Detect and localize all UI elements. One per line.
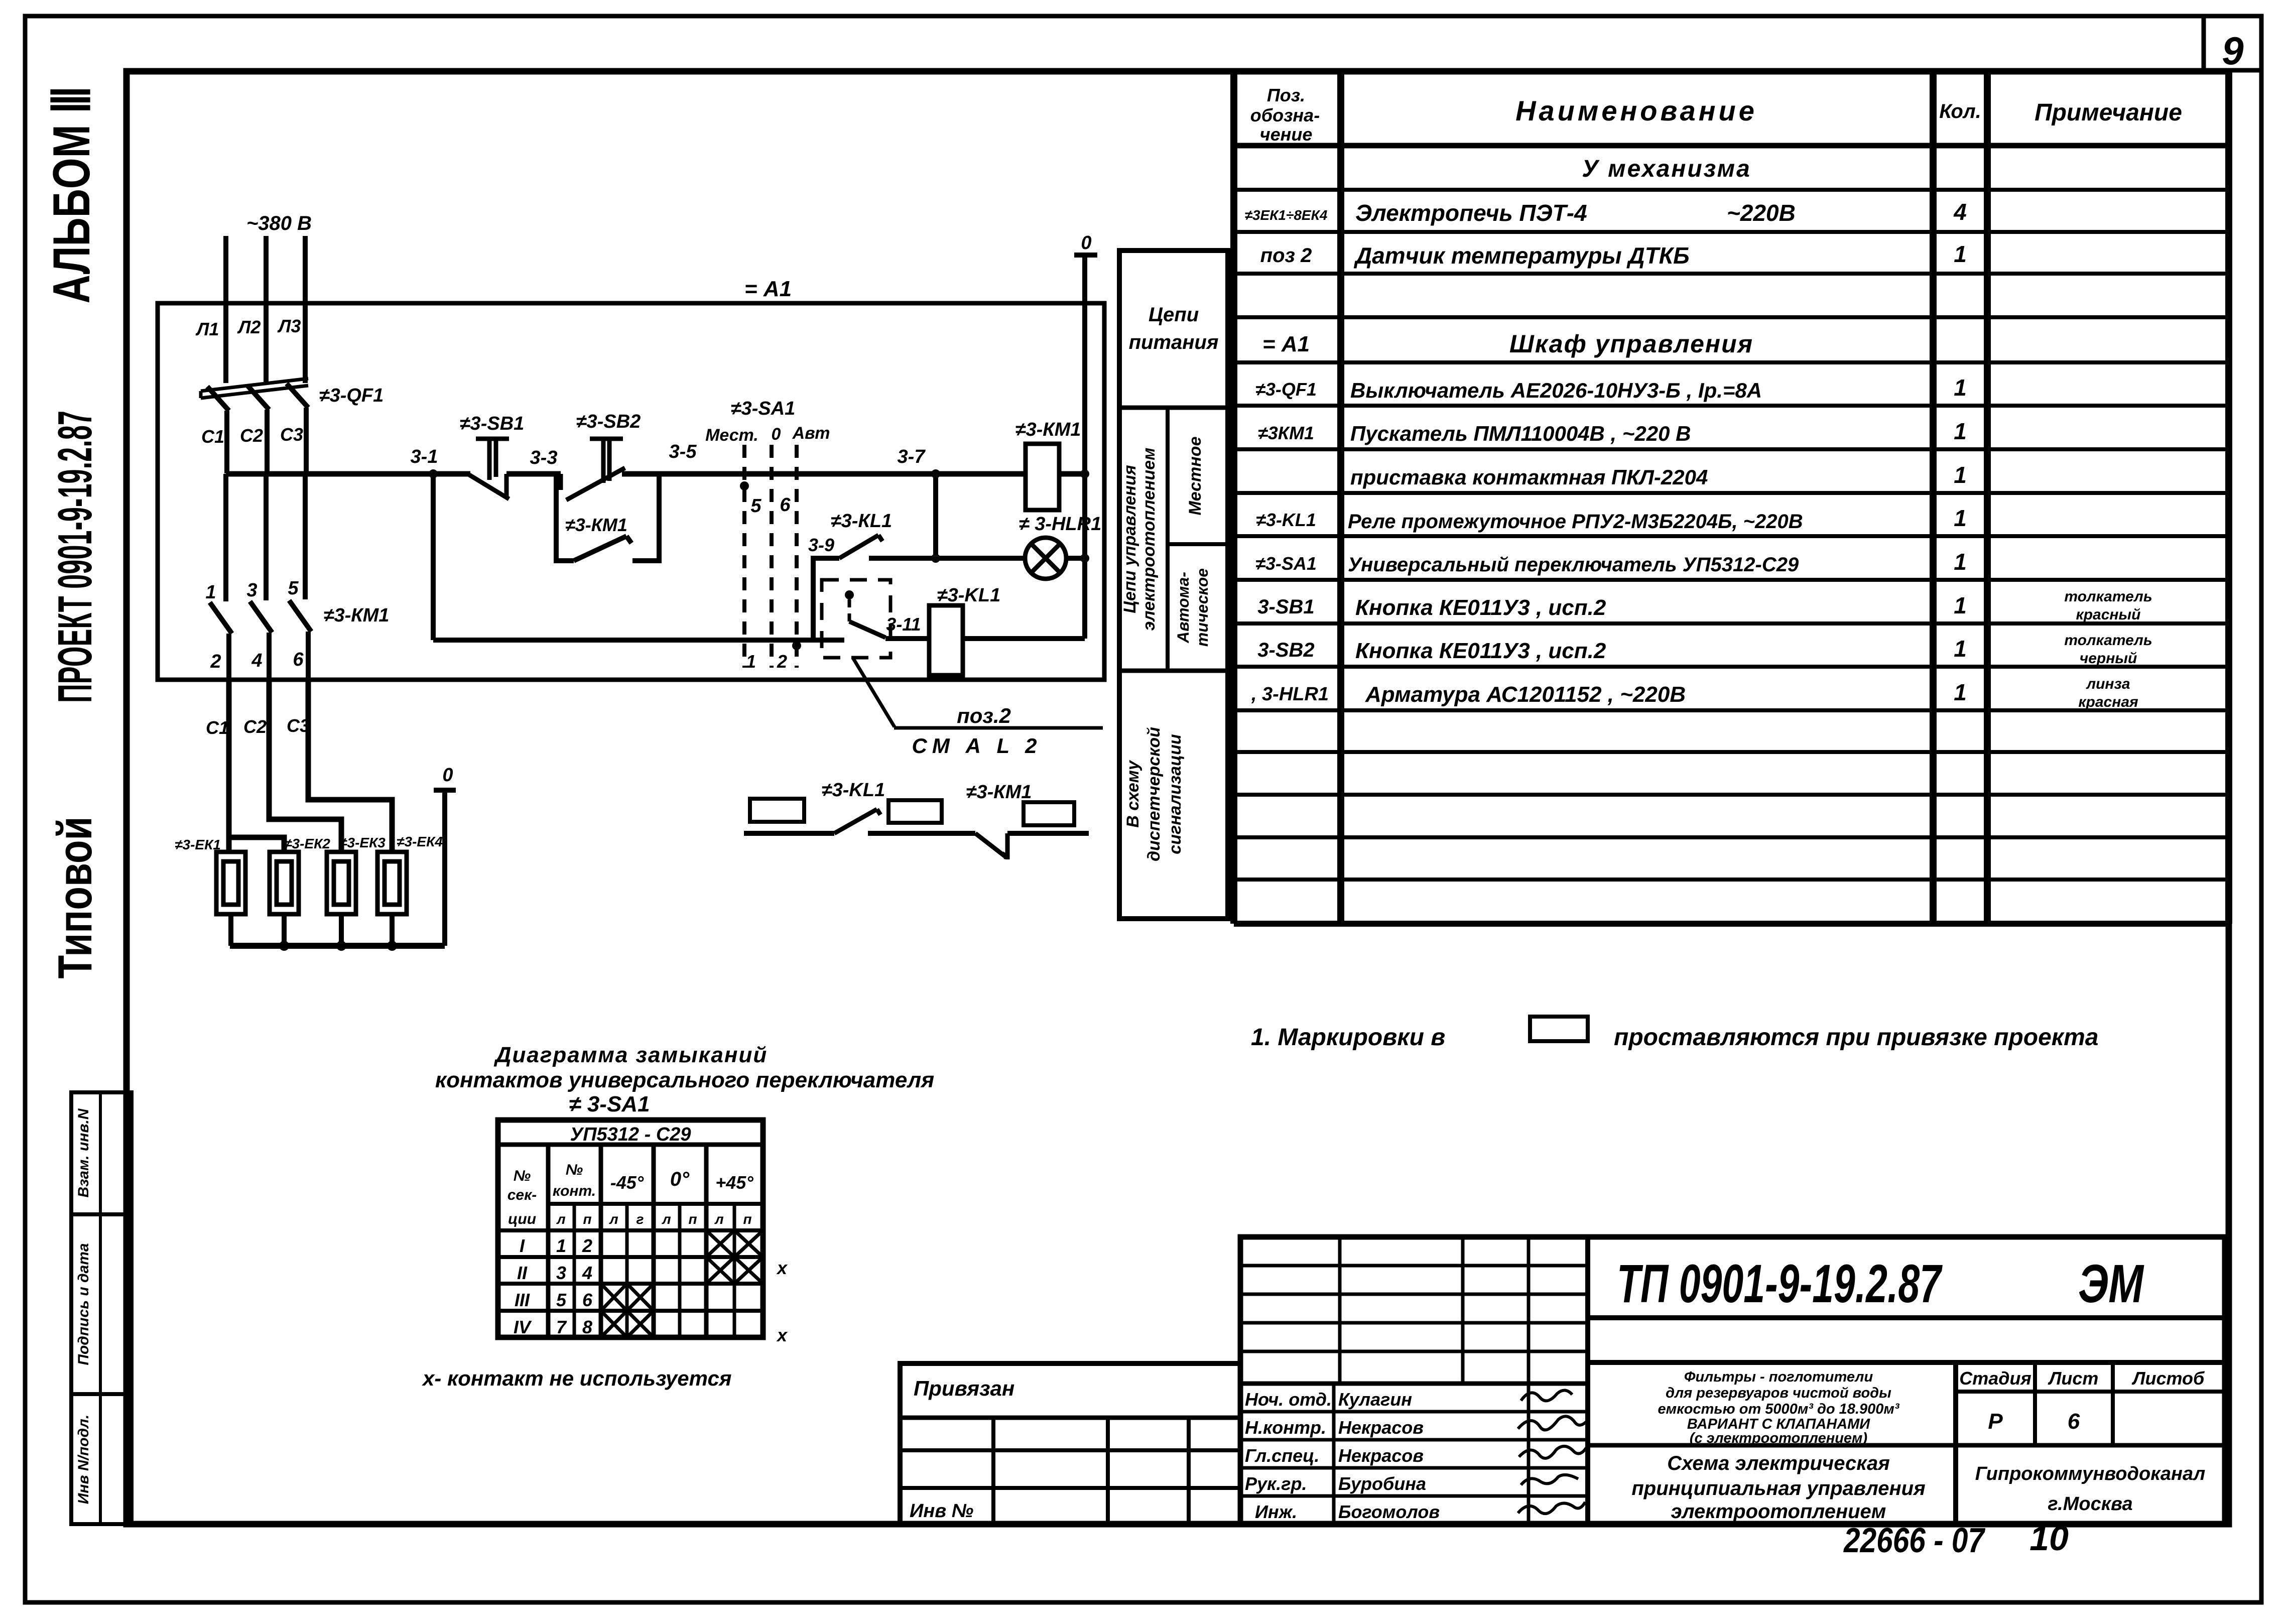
svg-text:С3: С3 [280,424,303,445]
neutral 0 wire vertical [1074,255,1097,639]
contactor KM1 auxiliary holding contact loop [556,474,659,561]
node 3-3 [530,447,558,468]
sensor contact [845,590,885,638]
node label 2 [777,651,787,672]
svg-text:Цепи управления: Цепи управления [1120,465,1139,613]
svg-text:0: 0 [1081,232,1091,254]
svg-text:С1: С1 [206,717,229,738]
svg-text:III: III [515,1290,530,1310]
svg-text:~220В: ~220В [1727,200,1796,226]
svg-text:x- контакт не используется: x- контакт не используется [422,1366,732,1390]
node label C1 lower [206,717,229,738]
SA1 contact 5-6 terminal dot [740,481,749,490]
contactor KM1 main pole 2 [250,474,272,679]
svg-text:Примечание: Примечание [2034,99,2182,126]
svg-text:-45°: -45° [610,1172,644,1193]
svg-text:1: 1 [1954,418,1967,444]
svg-text:Поз.: Поз. [1267,85,1305,105]
temperature sensor dashed box поз.2 [822,580,891,658]
svg-text:1: 1 [1954,374,1967,401]
svg-text:контактов универсального пере: контактов универсального переключателя [435,1068,934,1092]
привязан box [900,1363,1240,1524]
title block стадия лист листов [1959,1368,2205,1434]
left margin vertical texts [43,86,102,979]
svg-text:ЭМ: ЭМ [2078,1253,2144,1314]
svg-text:= А1: = А1 [744,277,792,301]
svg-text:Датчик температуры ДТКБ: Датчик температуры ДТКБ [1353,242,1690,269]
svg-text:АЛЬБОМ Ⅲ: АЛЬБОМ Ⅲ [43,86,101,304]
svg-text:≠3-SA1: ≠3-SA1 [1255,553,1317,574]
svg-text:Р: Р [1988,1409,2003,1434]
svg-text:≠3-КL1: ≠3-КL1 [831,511,892,532]
closure diagram title [435,1043,934,1116]
parts table row texts [1245,156,1967,707]
svg-text:3: 3 [556,1263,566,1283]
svg-text:принципиальная управления: принципиальная управления [1631,1477,1925,1500]
svg-text:Кнопка КЕ011У3 , исп.2: Кнопка КЕ011У3 , исп.2 [1355,639,1606,663]
svg-text:Пускатель ПМЛ110004В ,: Пускатель ПМЛ110004В , ~220 В [1350,422,1691,445]
svg-text:≠3-QF1: ≠3-QF1 [1255,379,1317,400]
svg-text:0: 0 [442,765,453,786]
title block schema name [1631,1452,1925,1523]
svg-text:Рук.гр.: Рук.гр. [1245,1473,1307,1494]
title block organization [1975,1463,2205,1515]
closure X marks row III -45 [601,1284,654,1311]
note marking sample box [1530,1017,1588,1041]
svg-text:10: 10 [2029,1519,2069,1558]
note контакт не используется [422,1366,732,1390]
contactor KM1 main pole 3 [289,474,311,679]
svg-text:п: п [583,1211,591,1227]
wire 3-7 to lamp branch [931,474,940,563]
unused contact marks [776,1258,788,1345]
svg-text:x: x [776,1325,788,1345]
node label 6 pole [293,649,304,670]
dispatch wire 2 [868,831,975,836]
relay contact KL1 3-9 branch riser [813,558,839,640]
svg-text:конт.: конт. [553,1183,596,1199]
title block staff [1245,1389,1440,1522]
svg-text:чение: чение [1260,124,1313,145]
svg-text:≠ 3-HLR1: ≠ 3-HLR1 [1019,514,1101,535]
svg-text:≠3ЕК1÷8ЕК4: ≠3ЕК1÷8ЕК4 [1245,207,1328,223]
dispatch wire 3 [1007,831,1089,836]
circuits classification box [1119,251,1228,919]
svg-text:Подпись и дата: Подпись и дата [75,1243,92,1365]
svg-text:≠3-ЕК2: ≠3-ЕК2 [284,836,330,851]
svg-text:≠3-КМ1: ≠3-КМ1 [966,782,1032,803]
svg-text:поз.2: поз.2 [957,704,1011,727]
label QF1 [319,385,384,406]
marking box 1 [750,799,804,822]
node 3-1 [411,446,438,478]
svg-text:приставка контактная ПКЛ-22: приставка контактная ПКЛ-2204 [1350,465,1708,489]
svg-text:4: 4 [251,650,262,671]
svg-text:≠3-ЕК4: ≠3-ЕК4 [397,834,443,849]
heater EK3 [327,852,356,914]
svg-text:тическое: тическое [1193,568,1211,647]
svg-text:≠3-KL1: ≠3-KL1 [822,780,885,801]
svg-text:л: л [608,1211,618,1227]
svg-text:6: 6 [582,1290,593,1310]
svg-text:≠ 3-SA1: ≠ 3-SA1 [569,1092,650,1116]
label KL1 contact [831,511,892,532]
svg-text:Инв N/подл.: Инв N/подл. [75,1415,92,1504]
label KL1 coil [937,585,1000,606]
lamp HLR1 [1025,538,1066,579]
svg-text:(с электроотоплением): (с электроотоплением) [1690,1430,1867,1446]
circuit breaker QF1 pole 2 [247,386,269,473]
svg-text:Универсальный переключатель УП: Универсальный переключатель УП5312-С29 [1348,554,1799,576]
svg-text:сек-: сек- [507,1187,537,1203]
control circuit main wire segment C [622,471,1026,477]
label KM1 main contacts [324,605,390,626]
label KM1 aux [565,515,627,535]
node label 5 pole [288,578,299,599]
svg-text:Схема электрическая: Схема электрическая [1667,1452,1890,1474]
~380V supply label [246,212,312,234]
node 3-11 [886,614,921,635]
svg-text:Электропечь ПЭТ-4: Электропечь ПЭТ-4 [1355,200,1587,226]
svg-text:Взам. инв.N: Взам. инв.N [75,1108,92,1197]
node label 6 [780,494,791,516]
svg-text:3-SB2: 3-SB2 [1257,639,1314,661]
svg-text:1: 1 [746,651,756,672]
svg-text:Типовой: Типовой [48,817,102,979]
svg-text:Л3: Л3 [277,316,301,336]
node label C3 upper [280,424,303,445]
node label 2 pole [210,651,221,672]
svg-text:3-7: 3-7 [898,446,926,467]
svg-text:Кулагин: Кулагин [1338,1389,1412,1410]
svg-text:черный: черный [2080,650,2137,667]
svg-text:электроотоплением: электроотоплением [1671,1501,1886,1523]
svg-text:≠3-КМ1: ≠3-КМ1 [565,515,627,535]
parts list table grid [1234,71,2229,924]
svg-text:Шкаф управления: Шкаф управления [1509,330,1753,358]
svg-text:Инв №: Инв № [910,1501,973,1522]
svg-text:x: x [776,1258,788,1278]
svg-text:С1: С1 [201,426,224,447]
node label Л2 [237,317,261,337]
svg-text:4: 4 [582,1263,592,1283]
heater EK2 [270,852,299,914]
wire C2 feeder [269,679,341,852]
svg-text:Л2: Л2 [237,317,261,337]
label SA1 [731,398,796,419]
svg-text:№: № [514,1168,531,1184]
selector switch SA1 labels [705,424,830,445]
heater return leads [231,914,392,946]
svg-text:поз 2: поз 2 [1260,244,1312,267]
node label 1 pole [205,582,216,603]
svg-text:Авт: Авт [792,424,830,443]
svg-text:СМ А L 2: СМ А L 2 [912,734,1042,758]
svg-text:22666 - 07: 22666 - 07 [1843,1521,1985,1560]
svg-text:1: 1 [1954,241,1967,267]
left sidebar stamp table [71,1092,132,1524]
svg-text:3-11: 3-11 [886,614,921,635]
archive number [1843,1519,2069,1560]
svg-text:Кол.: Кол. [1939,100,1981,122]
pushbutton SB2 start [561,439,625,500]
closure X marks row IV -45 [601,1311,654,1337]
neutral return bus [230,941,445,951]
node label C3 lower [287,715,310,736]
svg-text:УП5312 - С29: УП5312 - С29 [570,1124,691,1145]
contactor KM1 main pole 1 [210,474,232,679]
svg-text:2: 2 [777,651,787,672]
svg-text:= А1: = А1 [1262,332,1310,356]
label EK3 [339,835,386,850]
wire lamp branch [869,556,1026,561]
label KM1 coil [1015,419,1081,440]
svg-text:С2: С2 [243,716,267,737]
svg-text:1: 1 [1954,679,1967,705]
heater EK1 [216,852,245,914]
wire phase L2 top [264,236,269,383]
label EK4 [397,834,443,849]
node label 1 [746,651,756,672]
wire C1 feeder [229,679,284,852]
label KM1 dispatch [966,782,1032,803]
svg-text:л: л [661,1211,671,1227]
page number box [2204,16,2261,70]
wire automatic bypass [433,638,844,643]
svg-text:≠3-ЕК1: ≠3-ЕК1 [175,837,221,852]
node label 5 [750,495,761,517]
node label 0 top [1081,232,1091,254]
svg-text:толкатель: толкатель [2064,588,2152,605]
dispatch contactor contact KM1 [975,833,1010,859]
selector switch SA1 dashed column 2 [770,445,774,668]
svg-text:≠3КМ1: ≠3КМ1 [1258,423,1314,443]
svg-text:Некрасов: Некрасов [1338,1417,1424,1438]
svg-text:II: II [517,1263,528,1283]
svg-text:≠3-ЕК3: ≠3-ЕК3 [339,835,386,850]
svg-text:Выключатель АЕ2026-10НУ3-Б ,: Выключатель АЕ2026-10НУ3-Б , Iр.=8А [1350,379,1762,402]
svg-text:6: 6 [780,494,791,516]
leader line to sensor note [853,659,895,727]
node 3-7 [898,446,940,478]
circuit breaker QF1 pole 1 [207,387,229,473]
svg-text:Реле промежуточное РПУ2-М3Б2: Реле промежуточное РПУ2-М3Б2204Б, ~220В [1348,511,1803,533]
relay coil KL1 [929,605,963,675]
relay contact KL1 NO [839,535,882,558]
svg-text:красный: красный [2076,606,2141,623]
node 3-9 [808,535,834,555]
svg-text:л: л [556,1211,565,1227]
svg-text:Ноч. отд.: Ноч. отд. [1245,1389,1332,1410]
svg-text:ПРОЕКТ 0901-9-19.2.87: ПРОЕКТ 0901-9-19.2.87 [48,411,102,703]
svg-text:1: 1 [1954,549,1967,575]
svg-text:У механизма: У механизма [1582,156,1751,182]
svg-text:4: 4 [1953,199,1967,225]
svg-text:6: 6 [2068,1409,2080,1434]
svg-text:5: 5 [556,1290,567,1310]
svg-text:2: 2 [582,1235,592,1256]
closure X marks row II +45 [706,1257,763,1284]
svg-text:2: 2 [210,651,221,672]
node label 0 lower [442,765,453,786]
svg-text:Л1: Л1 [195,319,219,339]
closure diagram header texts [507,1124,754,1227]
wire 3-1 branch down [431,474,436,640]
svg-text:г.Москва: г.Москва [2048,1493,2132,1515]
svg-text:Некрасов: Некрасов [1338,1445,1424,1466]
svg-text:≠3-KL1: ≠3-KL1 [1256,510,1316,530]
svg-text:Цепи: Цепи [1149,304,1199,326]
svg-text:1: 1 [1954,505,1967,531]
svg-text:Местное: Местное [1186,436,1205,515]
svg-text:≠3-KL1: ≠3-KL1 [937,585,1000,606]
svg-text:Буробина: Буробина [1338,1473,1426,1494]
circuit breaker QF1 pole 3 [287,384,308,473]
wire phase L1 top [223,236,228,383]
svg-text:3-9: 3-9 [808,535,834,555]
svg-text:≠3-КМ1: ≠3-КМ1 [324,605,390,626]
svg-text:7: 7 [556,1317,567,1337]
svg-text:≠3-SВ2: ≠3-SВ2 [576,411,641,432]
svg-text:5: 5 [750,495,761,517]
svg-text:Инж.: Инж. [1255,1502,1297,1522]
svg-text:С2: С2 [240,425,263,446]
svg-text:3-1: 3-1 [411,446,438,467]
node label Л1 [195,319,219,339]
svg-text:г: г [637,1211,644,1227]
neutral 0 terminal lower [434,790,456,946]
control circuit main wire segment A [226,471,470,477]
control circuit main wire segment D [1059,471,1085,477]
svg-text:проставляются при привязке: проставляются при привязке проекта [1614,1024,2098,1051]
svg-text:Богомолов: Богомолов [1338,1502,1440,1522]
label EK2 [284,836,330,851]
closure diagram data rows [514,1235,593,1337]
wire sensor to KL1 coil [885,636,929,641]
svg-text:~380 В: ~380 В [246,212,312,234]
label SB2 [576,411,641,432]
svg-text:Стадия: Стадия [1959,1368,2031,1389]
parts table примечание small texts [2064,588,2152,710]
svg-text:Гипрокоммунводоканал: Гипрокоммунводоканал [1975,1463,2205,1484]
svg-text:8: 8 [582,1317,592,1337]
dispatch relay contact KL1 [834,809,880,833]
SA1 contact 1-2 terminal dot [792,641,801,650]
sensor note поз.2 [894,704,1103,758]
svg-text:I: I [520,1235,525,1256]
title block project description [1658,1369,1899,1446]
node label C2 lower [243,716,267,737]
title block frame [1240,1237,2225,1524]
svg-text:линза: линза [2085,676,2130,692]
breaker QF1 linkage bar [201,379,308,398]
svg-text:9: 9 [2222,29,2244,73]
control circuit main wire segment B [506,471,561,477]
signatures [1518,1390,1588,1514]
svg-text:сигнализации: сигнализации [1166,734,1185,854]
marking box 3 [1024,802,1074,825]
svg-text:Кнопка КЕ011У3 , исп.2: Кнопка КЕ011У3 , исп.2 [1355,595,1606,620]
svg-text:1: 1 [1954,592,1967,618]
svg-text:6: 6 [293,649,304,670]
marking box 2 [888,800,942,823]
svg-text:1: 1 [205,582,216,603]
svg-text:Фильтры - поглотители: Фильтры - поглотители [1684,1369,1873,1385]
node label 4 pole [251,650,262,671]
closure diagram л/п row [556,1211,751,1227]
svg-text:л: л [714,1211,723,1227]
svg-text:Наименование: Наименование [1515,95,1757,127]
node label Л3 [277,316,301,336]
svg-text:для резервуаров чистой воды: для резервуаров чистой воды [1666,1385,1891,1401]
svg-text:обозна-: обозна- [1250,105,1320,126]
svg-text:емкостью от 5000м³ до 18.900м³: емкостью от 5000м³ до 18.900м³ [1658,1401,1899,1417]
svg-text:п: п [743,1211,751,1227]
wire phase L3 top [303,236,308,383]
title block doc number [1617,1253,2144,1314]
svg-text:Листоб: Листоб [2131,1368,2205,1389]
svg-text:1. Маркировки в: 1. Маркировки в [1251,1024,1445,1051]
node label C2 upper [240,425,263,446]
svg-text:, 3-HLR1: , 3-HLR1 [1251,684,1329,705]
svg-text:Арматура АС1201152 , ~220В: Арматура АС1201152 , ~220В [1365,682,1686,707]
contactor coil KM1 [1026,444,1059,510]
svg-text:красная: красная [2078,694,2138,710]
svg-text:≠3-КМ1: ≠3-КМ1 [1015,419,1081,440]
svg-text:IV: IV [514,1317,532,1337]
enclosure box =A1 [158,303,1104,680]
svg-text:Н.контр.: Н.контр. [1245,1417,1326,1438]
svg-text:диспетчерской: диспетчерской [1144,727,1164,861]
parts table header texts [1250,85,2182,145]
label HLR1 [1019,514,1101,535]
heater EK4 [377,852,407,914]
svg-text:ТП 0901-9-19.2.87: ТП 0901-9-19.2.87 [1617,1253,1943,1314]
selector switch SA1 dashed column 1 [742,445,746,668]
svg-text:+45°: +45° [715,1172,753,1193]
closure X marks row I +45 [706,1230,763,1257]
label SB1 [460,413,525,434]
closure diagram table [498,1120,763,1337]
svg-text:Привязан: Привязан [914,1377,1014,1400]
svg-text:1: 1 [1954,462,1967,488]
label KL1 dispatch [822,780,885,801]
svg-text:0°: 0° [670,1168,690,1190]
selector switch SA1 dashed column 3 [795,445,799,668]
svg-text:Мест.: Мест. [705,426,758,445]
node label C1 upper [201,426,224,447]
svg-text:В схему: В схему [1123,760,1142,828]
wire lamp to neutral [1066,556,1085,561]
svg-text:питания: питания [1129,331,1219,353]
svg-text:№: № [566,1162,583,1178]
note 1 маркировки [1251,1024,2098,1051]
wire C3 feeder [308,679,392,852]
svg-text:0: 0 [772,425,781,444]
svg-text:электроотоплением: электроотоплением [1139,448,1159,631]
svg-text:≠3-QF1: ≠3-QF1 [319,385,384,406]
svg-text:толкатель: толкатель [2064,632,2152,649]
svg-text:≠3-SВ1: ≠3-SВ1 [460,413,525,434]
svg-text:Лист: Лист [2048,1368,2099,1389]
svg-text:5: 5 [288,578,299,599]
node 3-5 [669,441,697,462]
svg-text:≠3-SA1: ≠3-SA1 [731,398,796,419]
svg-text:Автома-: Автома- [1174,572,1192,644]
svg-text:1: 1 [1954,636,1967,662]
svg-text:1: 1 [556,1235,566,1256]
svg-text:ции: ции [508,1211,536,1227]
